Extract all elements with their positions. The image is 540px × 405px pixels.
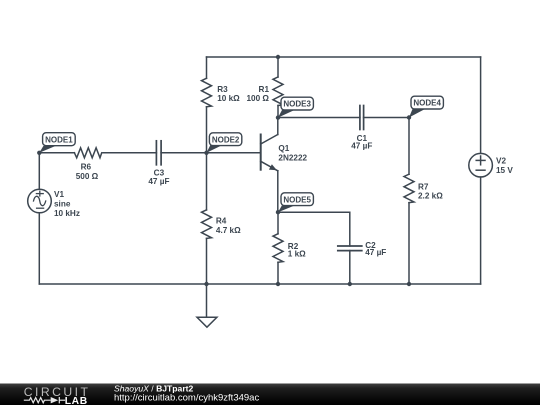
svg-text:sine: sine: [54, 200, 71, 209]
resistor R6: [74, 148, 101, 158]
svg-text:10 kHz: 10 kHz: [54, 209, 80, 218]
wire R3 top: [206, 57, 208, 78]
node label NODE4: [409, 96, 443, 117]
wire NODE3 to C1: [278, 117, 360, 119]
svg-text:Q1: Q1: [278, 144, 289, 153]
svg-text:R3: R3: [217, 85, 228, 94]
resistor R7: [404, 174, 414, 203]
wire bottom rail: [39, 283, 480, 285]
footer logo resistor diode: [24, 397, 65, 403]
wire Q1 emitter: [277, 171, 279, 212]
wire V2 top: [480, 57, 482, 153]
node dot NODE4: [407, 115, 411, 119]
svg-text:10 kΩ: 10 kΩ: [217, 94, 240, 103]
capacitor C1: [360, 106, 364, 130]
node label NODE2: [207, 133, 242, 153]
svg-text:47 µF: 47 µF: [365, 248, 386, 257]
resistor R3: [202, 78, 212, 107]
wire NODE5 right: [278, 212, 350, 246]
wire NODE2 to Q1 base: [207, 152, 261, 154]
resistor R2: [273, 234, 283, 262]
wire C3 to NODE2: [161, 152, 206, 154]
wire C2 bottom: [349, 251, 351, 284]
svg-text:V2: V2: [496, 156, 506, 165]
wire NODE4 down: [408, 118, 410, 175]
wire R2 bottom: [277, 262, 279, 284]
svg-text:R6: R6: [81, 162, 92, 171]
svg-text:R4: R4: [216, 217, 227, 226]
source V2: [469, 153, 493, 177]
node label NODE3: [278, 97, 313, 117]
junction dot ground: [204, 282, 208, 286]
wire R6 to C3: [103, 152, 156, 154]
node label NODE1: [39, 133, 75, 153]
svg-text:47 µF: 47 µF: [148, 177, 169, 186]
wire R3 bottom: [206, 107, 208, 153]
svg-text:R1: R1: [259, 85, 270, 94]
svg-text:R7: R7: [418, 182, 429, 191]
wire NODE1 to R6: [39, 152, 74, 154]
wire R4 bottom: [206, 238, 208, 284]
footer bar: [0, 384, 540, 405]
wire R1 bottom: [277, 106, 279, 118]
capacitor C3: [156, 141, 161, 165]
ground: [197, 317, 217, 327]
wire ground stem: [206, 284, 208, 317]
resistor R4: [202, 210, 212, 239]
resistor R1: [273, 77, 283, 106]
capacitor C2: [338, 246, 362, 251]
junction dot R7 bottom: [407, 282, 411, 286]
wire V1 bottom: [38, 213, 40, 284]
svg-text:500 Ω: 500 Ω: [76, 172, 99, 181]
svg-text:4.7 kΩ: 4.7 kΩ: [216, 226, 241, 235]
wire R7 bottom: [408, 203, 410, 284]
wire R1 top: [277, 57, 279, 77]
svg-text:100 Ω: 100 Ω: [247, 94, 270, 103]
svg-text:1 kΩ: 1 kΩ: [288, 250, 306, 259]
source V1: [28, 189, 52, 213]
node dot NODE1: [37, 151, 41, 155]
svg-text:NODE3: NODE3: [283, 100, 311, 109]
junction dot top rail: [276, 55, 280, 59]
svg-text:NODE1: NODE1: [45, 135, 73, 144]
svg-text:LAB: LAB: [65, 396, 88, 405]
svg-text:47 µF: 47 µF: [351, 142, 372, 151]
junction dot R2 bottom: [276, 282, 280, 286]
svg-text:http://circuitlab.com/cyhk9zft: http://circuitlab.com/cyhk9zft349ac: [114, 392, 259, 403]
svg-text:NODE4: NODE4: [413, 99, 441, 108]
svg-text:2.2 kΩ: 2.2 kΩ: [418, 192, 443, 201]
node dot NODE2: [204, 151, 208, 155]
wire top rail: [207, 56, 481, 58]
wire V2 bottom: [480, 177, 482, 284]
wire Q1 collector: [277, 118, 279, 135]
wire R4 top: [206, 153, 208, 210]
wire R2 top: [277, 212, 279, 234]
svg-text:NODE5: NODE5: [283, 195, 311, 204]
node label NODE5: [278, 193, 313, 212]
node dot NODE3: [276, 115, 280, 119]
svg-text:15 V: 15 V: [496, 166, 513, 175]
svg-text:NODE2: NODE2: [212, 135, 240, 144]
junction dot C2 bottom: [348, 282, 352, 286]
svg-text:2N2222: 2N2222: [278, 153, 307, 162]
wire V1 top: [38, 153, 40, 190]
svg-text:V1: V1: [54, 190, 64, 199]
node dot NODE5: [276, 210, 280, 214]
transistor Q1: [261, 135, 278, 171]
wire C1 to NODE4: [364, 117, 409, 119]
